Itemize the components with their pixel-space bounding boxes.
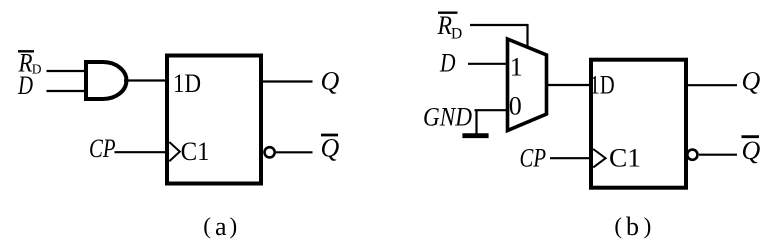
wire RD-bar to AND gate (a) bbox=[47, 70, 89, 72]
svg-text:0: 0 bbox=[509, 92, 522, 121]
svg-text:CP: CP bbox=[520, 143, 547, 172]
svg-text:b: b bbox=[626, 212, 639, 241]
svg-text:R: R bbox=[437, 11, 453, 40]
wire Q output (b) bbox=[686, 84, 737, 86]
ground symbol bar bbox=[462, 133, 488, 138]
svg-text:Q: Q bbox=[321, 67, 340, 96]
clock edge triangle (a) bbox=[169, 142, 180, 161]
svg-text:CP: CP bbox=[89, 134, 116, 163]
D flip-flop FF1 box bbox=[167, 56, 261, 184]
ground stub wire bbox=[475, 110, 477, 134]
wire CP to C1 (a) bbox=[115, 151, 170, 153]
AND gate G1 bbox=[86, 62, 126, 99]
svg-text:Q: Q bbox=[742, 136, 761, 165]
multiplexer MUX bbox=[508, 39, 547, 131]
svg-text:GND: GND bbox=[423, 102, 472, 131]
svg-text:D: D bbox=[439, 49, 456, 78]
svg-text:1: 1 bbox=[510, 53, 523, 82]
svg-text:(: ( bbox=[203, 214, 211, 239]
D flip-flop FF2 box bbox=[591, 60, 686, 188]
svg-text:C1: C1 bbox=[609, 143, 641, 172]
label Q-bar (a) bbox=[321, 134, 340, 163]
clock edge triangle (b) bbox=[593, 149, 605, 167]
inversion bubble (a) bbox=[265, 147, 275, 157]
svg-text:): ) bbox=[644, 214, 652, 239]
wire AND output to 1D (a) bbox=[124, 79, 169, 81]
label RD-bar (a) bbox=[18, 48, 42, 77]
wire D to mux input 1 (b) bbox=[468, 63, 509, 65]
wire CP to C1 (b) bbox=[550, 157, 593, 159]
svg-text:): ) bbox=[230, 214, 238, 239]
label Q-bar (b) bbox=[742, 136, 761, 165]
svg-text:D: D bbox=[451, 25, 462, 42]
wire mux output to 1D (b) bbox=[547, 84, 594, 86]
wire Q-bar output (a) bbox=[276, 151, 313, 153]
svg-text:1D: 1D bbox=[590, 70, 615, 99]
svg-text:D: D bbox=[32, 62, 42, 77]
wire GND to mux input 0 bbox=[475, 109, 510, 111]
svg-text:C1: C1 bbox=[181, 137, 210, 166]
svg-text:Q: Q bbox=[742, 67, 761, 96]
label RD-bar (b) bbox=[437, 11, 463, 42]
wire D to AND gate (a) bbox=[47, 90, 89, 92]
svg-text:1D: 1D bbox=[173, 69, 201, 98]
svg-text:a: a bbox=[215, 212, 227, 241]
svg-text:D: D bbox=[17, 71, 33, 100]
wire RD-bar select to mux (b) bbox=[470, 25, 528, 48]
inversion bubble (b) bbox=[687, 150, 697, 160]
svg-text:(: ( bbox=[614, 214, 622, 239]
svg-text:Q: Q bbox=[321, 134, 340, 163]
wire Q output (a) bbox=[261, 80, 313, 82]
wire Q-bar output (b) bbox=[699, 154, 737, 156]
